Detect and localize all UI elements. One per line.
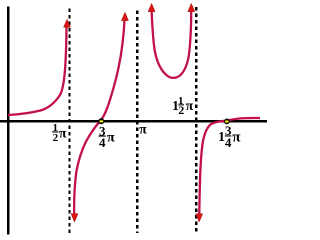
svg-text:π: π bbox=[139, 121, 147, 136]
svg-text:π: π bbox=[59, 126, 67, 141]
svg-text:2: 2 bbox=[53, 132, 59, 144]
svg-text:π: π bbox=[186, 98, 194, 113]
svg-text:π: π bbox=[107, 130, 115, 145]
svg-text:2: 2 bbox=[178, 103, 184, 117]
svg-text:π: π bbox=[232, 129, 241, 145]
svg-text:4: 4 bbox=[225, 135, 232, 150]
svg-text:4: 4 bbox=[99, 135, 106, 150]
